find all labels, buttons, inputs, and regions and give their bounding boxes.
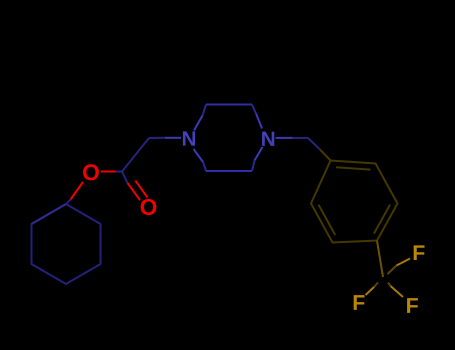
ester O1 label [83,164,99,180]
wire C2-C3 top [206,104,252,106]
wire O1-C1' (ester O to cyclohexyl CH) [71,182,84,200]
wire C3-N4 [252,105,256,114]
wire CH2b-C1 (benzyl CH2 to benzene) [308,138,320,150]
carbonyl C=O double bond [122,172,128,184]
wire C-F3 [388,283,391,287]
F3 label [407,298,418,313]
wire G-N1 [149,137,165,139]
wire N1-C6 [194,149,204,162]
wire C6-C5 bottom [206,170,252,172]
wire C1'-C2' upper-left edge (brighter) [32,204,67,224]
wire C5-N4 [255,147,263,161]
wire O1-Cc (ester O to carbonyl C) [101,171,116,173]
wire C4-CF3 [377,241,383,278]
wire C-F2 [374,283,378,288]
piperazine N1 label [183,131,195,145]
wire N4-CH2b [276,137,293,139]
benzene ring [311,161,398,243]
CF3: wire C-F1 [388,266,397,275]
piperazine N4 label [262,132,274,146]
wire Cc-G (carbonyl C to glycine CH2) [122,138,149,172]
F2 label [354,295,365,310]
carbonyl O2 label [141,199,157,215]
cyclohexyl ring C1'-C6' [32,204,101,284]
wire N1-C2 [194,116,203,131]
aromatic inner lines [336,167,371,169]
F1 label [414,245,425,260]
